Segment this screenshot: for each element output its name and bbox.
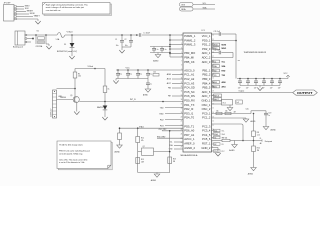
svg-text:AREF_0: AREF_0: [184, 142, 195, 146]
svg-text:AVCC_1: AVCC_1: [184, 137, 195, 141]
ground AGND (R10): [248, 168, 256, 176]
svg-text:ADC0_0: ADC0_0: [184, 68, 195, 72]
svg-text:15: 15: [212, 108, 214, 110]
wire AVCC return: [212, 40, 237, 42]
fuse F1: [56, 33, 66, 42]
ground AGND (C10): [143, 89, 151, 96]
wire cap bank 1 bottom: [122, 47, 131, 50]
svg-text:PD3: PD3: [160, 125, 164, 127]
ground AGND (resonator): [227, 108, 233, 111]
svg-text:PC2_A2: PC2_A2: [184, 77, 195, 81]
svg-text:1uF: 1uF: [238, 88, 241, 90]
svg-text:R10: R10: [257, 147, 260, 149]
svg-text:CR123A: CR123A: [36, 45, 43, 48]
svg-text:PC5_6: PC5_6: [202, 137, 211, 141]
svg-text:BAV199: BAV199: [97, 106, 103, 109]
IC1 value label: [181, 154, 198, 157]
wire GND (left low): [169, 149, 183, 151]
wire IC gnd pin: [212, 148, 219, 154]
svg-text:PC1_A1: PC1_A1: [184, 73, 195, 77]
svg-text:PWM1_2: PWM1_2: [184, 38, 196, 42]
wire ISP SCK: [17, 8, 30, 10]
ferrite L1 (series): [136, 32, 151, 36]
resistor R12 47k: [136, 128, 144, 172]
wire SDA (left low): [169, 144, 183, 147]
svg-text:32: 32: [212, 35, 214, 37]
power flag VCC: [284, 73, 291, 79]
svg-text:VCC: VCC: [284, 73, 289, 75]
svg-text:PC2_3: PC2_3: [202, 124, 211, 128]
svg-text:27: 27: [212, 56, 214, 58]
capacitor C20 1uF (resonator): [236, 100, 243, 104]
wire ADC6 stub (left): [167, 78, 183, 81]
svg-text:VCC_1: VCC_1: [202, 34, 211, 38]
svg-text:26: 26: [181, 142, 183, 144]
svg-text:TXD: TXD: [160, 107, 164, 109]
ground (battery): [46, 46, 51, 49]
svg-text:MOSI: MOSI: [213, 44, 218, 46]
svg-text:AGND: AGND: [115, 151, 121, 154]
capacitor C1 10uF: [115, 34, 124, 47]
net flag row AIN1: [212, 85, 226, 88]
svg-text:SCL: SCL: [213, 61, 216, 63]
resistor R9 10k (to AGND): [212, 137, 235, 144]
svg-text:10k: 10k: [216, 110, 219, 112]
svg-text:1uF: 1uF: [278, 88, 281, 90]
wire Q1 top rail: [75, 68, 105, 70]
svg-text:PD7_A1: PD7_A1: [184, 133, 195, 137]
wire XTAL1: [120, 125, 183, 131]
resistor R11 10k (reset): [153, 72, 159, 76]
label LDR1: [58, 96, 62, 98]
svg-text:10k: 10k: [78, 76, 81, 78]
svg-text:1uF: 1uF: [236, 102, 239, 104]
net flag SCL (bottom right): [212, 129, 225, 132]
capacitor C14 1uF: [246, 79, 250, 90]
svg-text:PC4_5: PC4_5: [202, 133, 211, 137]
svg-text:S1: S1: [37, 31, 39, 33]
wire ISP GND: [17, 19, 39, 21]
svg-text:PB5_CK: PB5_CK: [184, 60, 195, 64]
net flag row SDA: [212, 65, 226, 68]
net label V.Batt: [67, 31, 73, 34]
svg-text:TX: TX: [222, 137, 224, 139]
svg-text:set to 45 (and 4.7 kHz) resp.: set to 45 (and 4.7 kHz) resp.: [59, 152, 83, 155]
wire AVCC bank rail: [237, 78, 288, 80]
wire V.Batt rail 2: [142, 34, 183, 36]
resistor R8 1.1k: [252, 131, 260, 146]
svg-text:TEMPERATURE SENSOR: TEMPERATURE SENSOR: [244, 51, 267, 54]
resistor R13 1M: [168, 157, 176, 164]
svg-text:28: 28: [212, 52, 214, 54]
svg-text:1k: 1k: [108, 88, 110, 90]
capacitor C10 1uF: [146, 79, 152, 90]
wire battery mid: [27, 38, 34, 40]
svg-text:Output: Output: [239, 89, 245, 92]
ground (D2): [102, 117, 107, 120]
svg-text:PB3_MO: PB3_MO: [184, 51, 195, 55]
wire PB6 stub (left): [168, 88, 183, 90]
junction dataport: [242, 140, 254, 142]
junction xtal left: [137, 127, 139, 129]
wire strip to Q1 node: [57, 88, 76, 90]
svg-text:GND_1: GND_1: [201, 99, 210, 103]
wire elbow to dataport node: [212, 124, 244, 141]
net flag row MISO: [212, 47, 227, 50]
wire strip to Q1 base: [57, 99, 74, 101]
ground AGND (R9): [229, 145, 237, 153]
wire ISP MOSI: [17, 13, 36, 15]
svg-text:ADC_6: ADC_6: [202, 90, 211, 94]
wire AREF stub (left): [167, 73, 183, 76]
net flag 3V3 / wire SCL: [180, 3, 216, 7]
wire ISP RESET: [17, 10, 34, 12]
capacitor C19 1uF: [264, 111, 271, 127]
ground (cap bank 1): [119, 50, 124, 53]
diode D2: [97, 102, 107, 118]
svg-text:XTAL1: XTAL1: [139, 125, 144, 128]
svg-text:V Batt: V Batt: [67, 31, 73, 34]
svg-text:16: 16: [212, 103, 214, 105]
svg-text:TX: At the limit charge starts: TX: At the limit charge starts: [59, 144, 83, 147]
IC supply bus: [169, 34, 183, 57]
svg-text:PB3_3: PB3_3: [202, 77, 211, 81]
junction R1/strip: [74, 88, 76, 90]
svg-text:VBATT: VBATT: [34, 14, 41, 17]
svg-text:AIN1: AIN1: [222, 85, 226, 88]
wire PD3 (left): [160, 125, 183, 127]
svg-text:0.1u: 0.1u: [119, 74, 122, 76]
ground AGND (xtal area): [115, 145, 123, 154]
svg-text:LDR1: LDR1: [58, 96, 62, 98]
capacitor C7 0.1uF: [126, 70, 132, 79]
wire AGND stub (xtal): [119, 127, 121, 133]
svg-text:Right angle strong locked batt: Right angle strong locked battery connec…: [46, 3, 88, 6]
svg-text:C1: C1: [115, 39, 117, 41]
wire xtal bottom: [138, 173, 170, 175]
ground AGND (decap): [153, 55, 161, 63]
svg-text:MEGA48/88/168-A: MEGA48/88/168-A: [181, 154, 198, 157]
svg-text:GND_2: GND_2: [201, 146, 210, 150]
net flag OUTPUT: [293, 90, 318, 95]
svg-text:V Batt: V Batt: [88, 65, 94, 68]
svg-text:RXD: RXD: [160, 113, 165, 115]
junction INT row: [162, 101, 164, 103]
capacitor C8 0.1uF: [136, 70, 142, 79]
wire RXD (left): [160, 113, 184, 115]
wire battery minus: [27, 41, 31, 43]
svg-text:1uF: 1uF: [254, 88, 257, 90]
wire dataport: [230, 137, 273, 145]
svg-text:PC6_RS: PC6_RS: [184, 94, 195, 98]
svg-text:PB4_4: PB4_4: [202, 81, 211, 85]
wire V.Batt rail: [65, 34, 139, 36]
svg-text:ADC_3: ADC_3: [202, 60, 211, 64]
svg-text:Q1: Q1: [70, 95, 72, 97]
wire row AGND pendant: [212, 118, 247, 119]
svg-text:PD7: PD7: [222, 151, 225, 153]
svg-text:INT_N: INT_N: [130, 99, 136, 101]
capacitor C5 0.1uF: [160, 47, 166, 53]
wire battery positive: [27, 34, 57, 36]
capacitor C13 1uF: [238, 79, 242, 90]
svg-text:0.1u: 0.1u: [163, 49, 166, 51]
svg-text:SCL: SCL: [222, 130, 225, 132]
svg-text:SCL: SCL: [203, 3, 207, 5]
svg-text:10k: 10k: [153, 72, 156, 74]
net flag row TXD: [212, 74, 226, 77]
connector X1 battery jack: [13, 31, 27, 49]
ground (VCC bank): [113, 81, 118, 84]
wire XTAL2: [162, 130, 183, 132]
ground (ISP): [35, 21, 40, 24]
capacitor C6 0.1uF: [116, 70, 122, 79]
svg-text:AIN0: AIN0: [222, 81, 226, 84]
svg-text:AGND: AGND: [248, 173, 254, 176]
net flag ADC6: [212, 94, 222, 98]
svg-text:PD2_3: PD2_3: [202, 47, 211, 51]
svg-text:XC1: XC1: [223, 103, 226, 105]
net label V.Batt (Q1): [88, 65, 96, 69]
wire PD2 (left): [160, 119, 183, 121]
svg-text:11: 11: [212, 125, 214, 127]
svg-text:PD5_T1: PD5_T1: [184, 124, 194, 128]
D1 value label: [57, 50, 77, 53]
svg-text:L1 10uH: L1 10uH: [144, 32, 151, 34]
svg-text:1u: 1u: [150, 84, 152, 86]
crystal Q2: [138, 146, 170, 155]
svg-text:R8: R8: [257, 132, 259, 134]
svg-text:1u: 1u: [268, 115, 270, 117]
svg-text:21: 21: [181, 121, 183, 123]
svg-text:PC3_A3: PC3_A3: [184, 81, 195, 85]
svg-text:PC5_SC: PC5_SC: [184, 90, 195, 94]
zener D1: [64, 35, 74, 56]
svg-text:PD0_RX: PD0_RX: [184, 99, 195, 103]
svg-text:0.1u: 0.1u: [129, 74, 132, 76]
svg-text:OSC_2: OSC_2: [202, 107, 211, 111]
svg-text:PB6: PB6: [168, 88, 171, 90]
svg-text:ADC_7: ADC_7: [202, 94, 211, 98]
capacitor C4 0.1uF: [150, 46, 171, 53]
IC1 microcontroller MEGA48/88/168: [181, 30, 215, 152]
svg-text:Q2: Q2: [143, 146, 145, 148]
resistor R15 47k: [136, 158, 145, 164]
svg-text:1uF: 1uF: [270, 88, 273, 90]
ground AGND (xtal bottom): [151, 174, 160, 182]
resistor R1 10k: [73, 69, 81, 97]
svg-text:C2: C2: [124, 39, 126, 41]
svg-text:can start with car.: can start with car.: [46, 9, 62, 12]
svg-text:PWM1_3: PWM1_3: [184, 43, 196, 47]
svg-text:PD1_2: PD1_2: [202, 43, 211, 47]
capacitor C12 1uF (AREF): [212, 49, 234, 57]
svg-text:RX: RX: [222, 144, 224, 146]
svg-text:PB1_1: PB1_1: [202, 68, 211, 72]
svg-text:ADC_2: ADC_2: [202, 56, 211, 60]
wire Q1 emitter to ground: [76, 102, 78, 111]
svg-text:AGND: AGND: [143, 93, 149, 96]
svg-text:11: 11: [181, 78, 183, 80]
svg-text:PC0_1: PC0_1: [202, 111, 211, 115]
svg-text:C11 1uF: C11 1uF: [214, 31, 220, 33]
svg-text:SCL: SCL: [214, 130, 217, 132]
net label RXD_BED (left): [157, 136, 183, 138]
svg-text:22: 22: [181, 125, 183, 127]
svg-text:SDA: SDA: [181, 8, 186, 11]
svg-text:Dataport: Dataport: [265, 140, 273, 143]
svg-text:12: 12: [212, 121, 214, 123]
svg-text:R12: R12: [141, 138, 144, 140]
svg-text:OSC_1: OSC_1: [202, 103, 211, 107]
svg-text:10u: 10u: [116, 45, 119, 47]
svg-text:PC1_2: PC1_2: [202, 116, 211, 120]
capacitor C18 1uF: [278, 79, 282, 90]
svg-text:PC3_4: PC3_4: [202, 129, 211, 133]
svg-text:is set to 1 Hz alternate to 1: is set to 1 Hz alternate to 1 Hz.: [59, 161, 85, 164]
capacitor C15 1uF: [254, 79, 258, 90]
resistor R14 (xtal agnd): [118, 133, 122, 145]
wire decap bottom: [150, 52, 171, 55]
svg-text:PWM1_1: PWM1_1: [184, 34, 196, 38]
wire VCC rail: [116, 69, 183, 71]
svg-text:D1: D1: [64, 44, 66, 46]
connector JP1 ISP header: [4, 3, 17, 21]
wire AVCC bank bottom: [240, 86, 280, 88]
wire to ground (battery): [46, 44, 49, 46]
net flag RX (bottom right): [212, 143, 224, 146]
svg-text:AGND: AGND: [271, 129, 277, 132]
svg-text:16: 16: [181, 99, 183, 101]
svg-text:Cds: Cds: [246, 109, 249, 111]
svg-text:PD7: PD7: [214, 151, 217, 153]
net flag row RXD: [212, 69, 226, 72]
crystal Y2 (resonator box): [212, 100, 233, 108]
wire xtal right vertical: [169, 130, 171, 173]
wire PB7 stub (left): [168, 96, 183, 98]
svg-text:1.1k: 1.1k: [257, 135, 260, 137]
ground AGND (row): [243, 119, 256, 123]
svg-text:R15: R15: [141, 159, 144, 161]
svg-text:PB5_5: PB5_5: [202, 86, 211, 90]
svg-text:PB7: PB7: [168, 96, 171, 98]
net flag row MOSI: [212, 43, 227, 46]
svg-text:47k: 47k: [141, 140, 144, 142]
svg-text:C19: C19: [268, 112, 271, 114]
ground AGND (C19): [263, 127, 276, 132]
svg-text:PB2_2: PB2_2: [202, 73, 211, 77]
svg-text:Battery jack: Battery jack: [13, 46, 23, 49]
ground (Q1): [74, 112, 79, 115]
svg-text:27: 27: [181, 146, 183, 148]
svg-text:PB4_MI: PB4_MI: [184, 56, 194, 60]
svg-text:24: 24: [181, 134, 183, 136]
net flag SDA / wire SDA: [180, 6, 216, 11]
svg-text:RST_1: RST_1: [202, 142, 211, 146]
svg-text:22: 22: [212, 78, 214, 80]
capacitor C9 0.1uF: [146, 70, 152, 79]
wire sensor vertical: [235, 34, 237, 79]
resistor R2 1k: [103, 69, 109, 102]
capacitor C17 1uF: [270, 79, 274, 90]
svg-text:14: 14: [181, 91, 183, 93]
svg-text:0.1u: 0.1u: [155, 49, 158, 51]
svg-text:AGND_2: AGND_2: [184, 146, 195, 150]
svg-text:19: 19: [212, 91, 214, 93]
svg-text:PD1_TX: PD1_TX: [184, 103, 194, 107]
svg-text:PD4_T0: PD4_T0: [184, 116, 194, 120]
svg-text:PD2_I0: PD2_I0: [184, 107, 193, 111]
wire TXD (left): [160, 107, 183, 109]
svg-text:R13: R13: [173, 159, 176, 161]
svg-text:AGND: AGND: [229, 149, 235, 152]
svg-text:BZX84C5V1 (rated 5.1V): BZX84C5V1 (rated 5.1V): [57, 50, 77, 53]
net flag SDA (bottom right): [212, 133, 225, 136]
svg-text:PC4_SD: PC4_SD: [184, 86, 195, 90]
wire SCL (left low): [169, 142, 183, 144]
svg-text:ADC6: ADC6: [214, 95, 219, 98]
svg-text:10u: 10u: [125, 45, 128, 47]
svg-text:OUTPUT: OUTPUT: [297, 91, 313, 95]
ground (IC): [215, 153, 220, 156]
ground (zener): [69, 56, 74, 59]
wire ADC divider vertical: [253, 113, 255, 131]
svg-text:PD2: PD2: [160, 119, 164, 121]
note box (programming note): [57, 141, 112, 170]
svg-text:0.1u: 0.1u: [149, 74, 152, 76]
junction INT/D2: [104, 101, 106, 103]
net flag row AIN0: [212, 81, 226, 84]
wire VCC bank bottom: [116, 79, 148, 81]
svg-text:18: 18: [181, 108, 183, 110]
wire ISP MISO: [17, 5, 31, 7]
svg-text:MOSI: MOSI: [222, 44, 227, 46]
svg-text:AGND: AGND: [151, 179, 157, 182]
svg-text:CLK_OSC: The clock current lim: CLK_OSC: The clock current limit: [59, 158, 88, 161]
wire INT (Q1 collector to IC): [79, 99, 183, 101]
capacitor C11 1uF (AVCC): [212, 31, 237, 36]
net flag TX (bottom right): [212, 136, 224, 139]
svg-text:MISO: MISO: [222, 48, 227, 50]
label ws: [238, 60, 240, 62]
wire ISP VBATT: [17, 14, 41, 17]
capacitor C16 1uF: [262, 79, 266, 90]
wire ADC7 stub (left): [167, 82, 183, 85]
resistor R10 1M: [252, 146, 260, 168]
svg-text:C12 1uF: C12 1uF: [214, 49, 220, 51]
svg-text:1uF: 1uF: [246, 88, 249, 90]
svg-text:10k: 10k: [225, 110, 228, 112]
svg-text:PD3_I1: PD3_I1: [184, 111, 193, 115]
switch S1 (battery): [35, 31, 47, 49]
svg-text:ws: ws: [238, 60, 240, 62]
svg-text:PD0_1: PD0_1: [202, 38, 211, 42]
svg-text:20: 20: [181, 116, 183, 118]
svg-text:0.1u: 0.1u: [139, 74, 142, 76]
net flag PD7 (bottom right): [212, 150, 225, 153]
sensor strip JP2: [51, 90, 57, 118]
label temperature sensor: [244, 51, 267, 54]
svg-text:wont it charge a 9 volt becaus: wont it charge a 9 volt because no holes…: [46, 6, 85, 9]
junction V.Batt: [71, 34, 73, 36]
note box (battery connector note): [43, 3, 112, 16]
svg-text:17: 17: [181, 103, 183, 105]
wire Cds row: [212, 109, 267, 115]
capacitor C2 10uF: [124, 34, 133, 47]
net flag row SCL: [212, 60, 226, 63]
svg-text:ADC7: ADC7: [214, 98, 219, 101]
transistor Q1: [60, 95, 79, 103]
